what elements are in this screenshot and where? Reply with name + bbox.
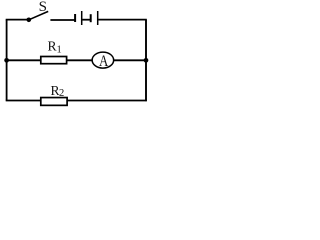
wire: middle rail from ammeter to right rail <box>114 59 147 61</box>
resistor R1 <box>41 39 67 64</box>
switch S <box>27 0 49 22</box>
cell 2 long (positive) plate <box>97 11 99 25</box>
wire: bottom rail from left rail to R2 <box>6 100 41 102</box>
wire: top rail right segment (battery to top-right corner) <box>98 19 146 21</box>
wire: top rail left segment (corner to switch pivot) <box>6 19 29 21</box>
wire: right rail <box>145 20 147 102</box>
wire: bottom rail from R2 to bottom-right corner <box>68 100 147 102</box>
wire between cells <box>82 19 90 21</box>
wire: middle rail between R1 and ammeter <box>67 59 92 61</box>
node: left junction of middle branch <box>4 58 9 63</box>
cell 1 long (positive) plate <box>81 11 83 25</box>
cell 1 short (negative) plate <box>74 14 76 22</box>
ammeter A <box>92 52 114 70</box>
svg-text:1: 1 <box>57 45 62 56</box>
svg-text:S: S <box>39 0 47 15</box>
node: right junction of middle branch <box>144 58 149 63</box>
resistor R2 <box>41 83 67 105</box>
battery (two cells) <box>75 11 98 25</box>
wire: middle rail from left rail to R1 <box>7 59 41 61</box>
cell 2 short (negative) plate <box>90 14 92 22</box>
wire: left rail (top-left corner to bottom-left corner) <box>6 20 8 101</box>
svg-text:2: 2 <box>59 88 64 99</box>
wire: top rail between switch and battery <box>50 19 74 21</box>
svg-text:A: A <box>99 53 109 70</box>
